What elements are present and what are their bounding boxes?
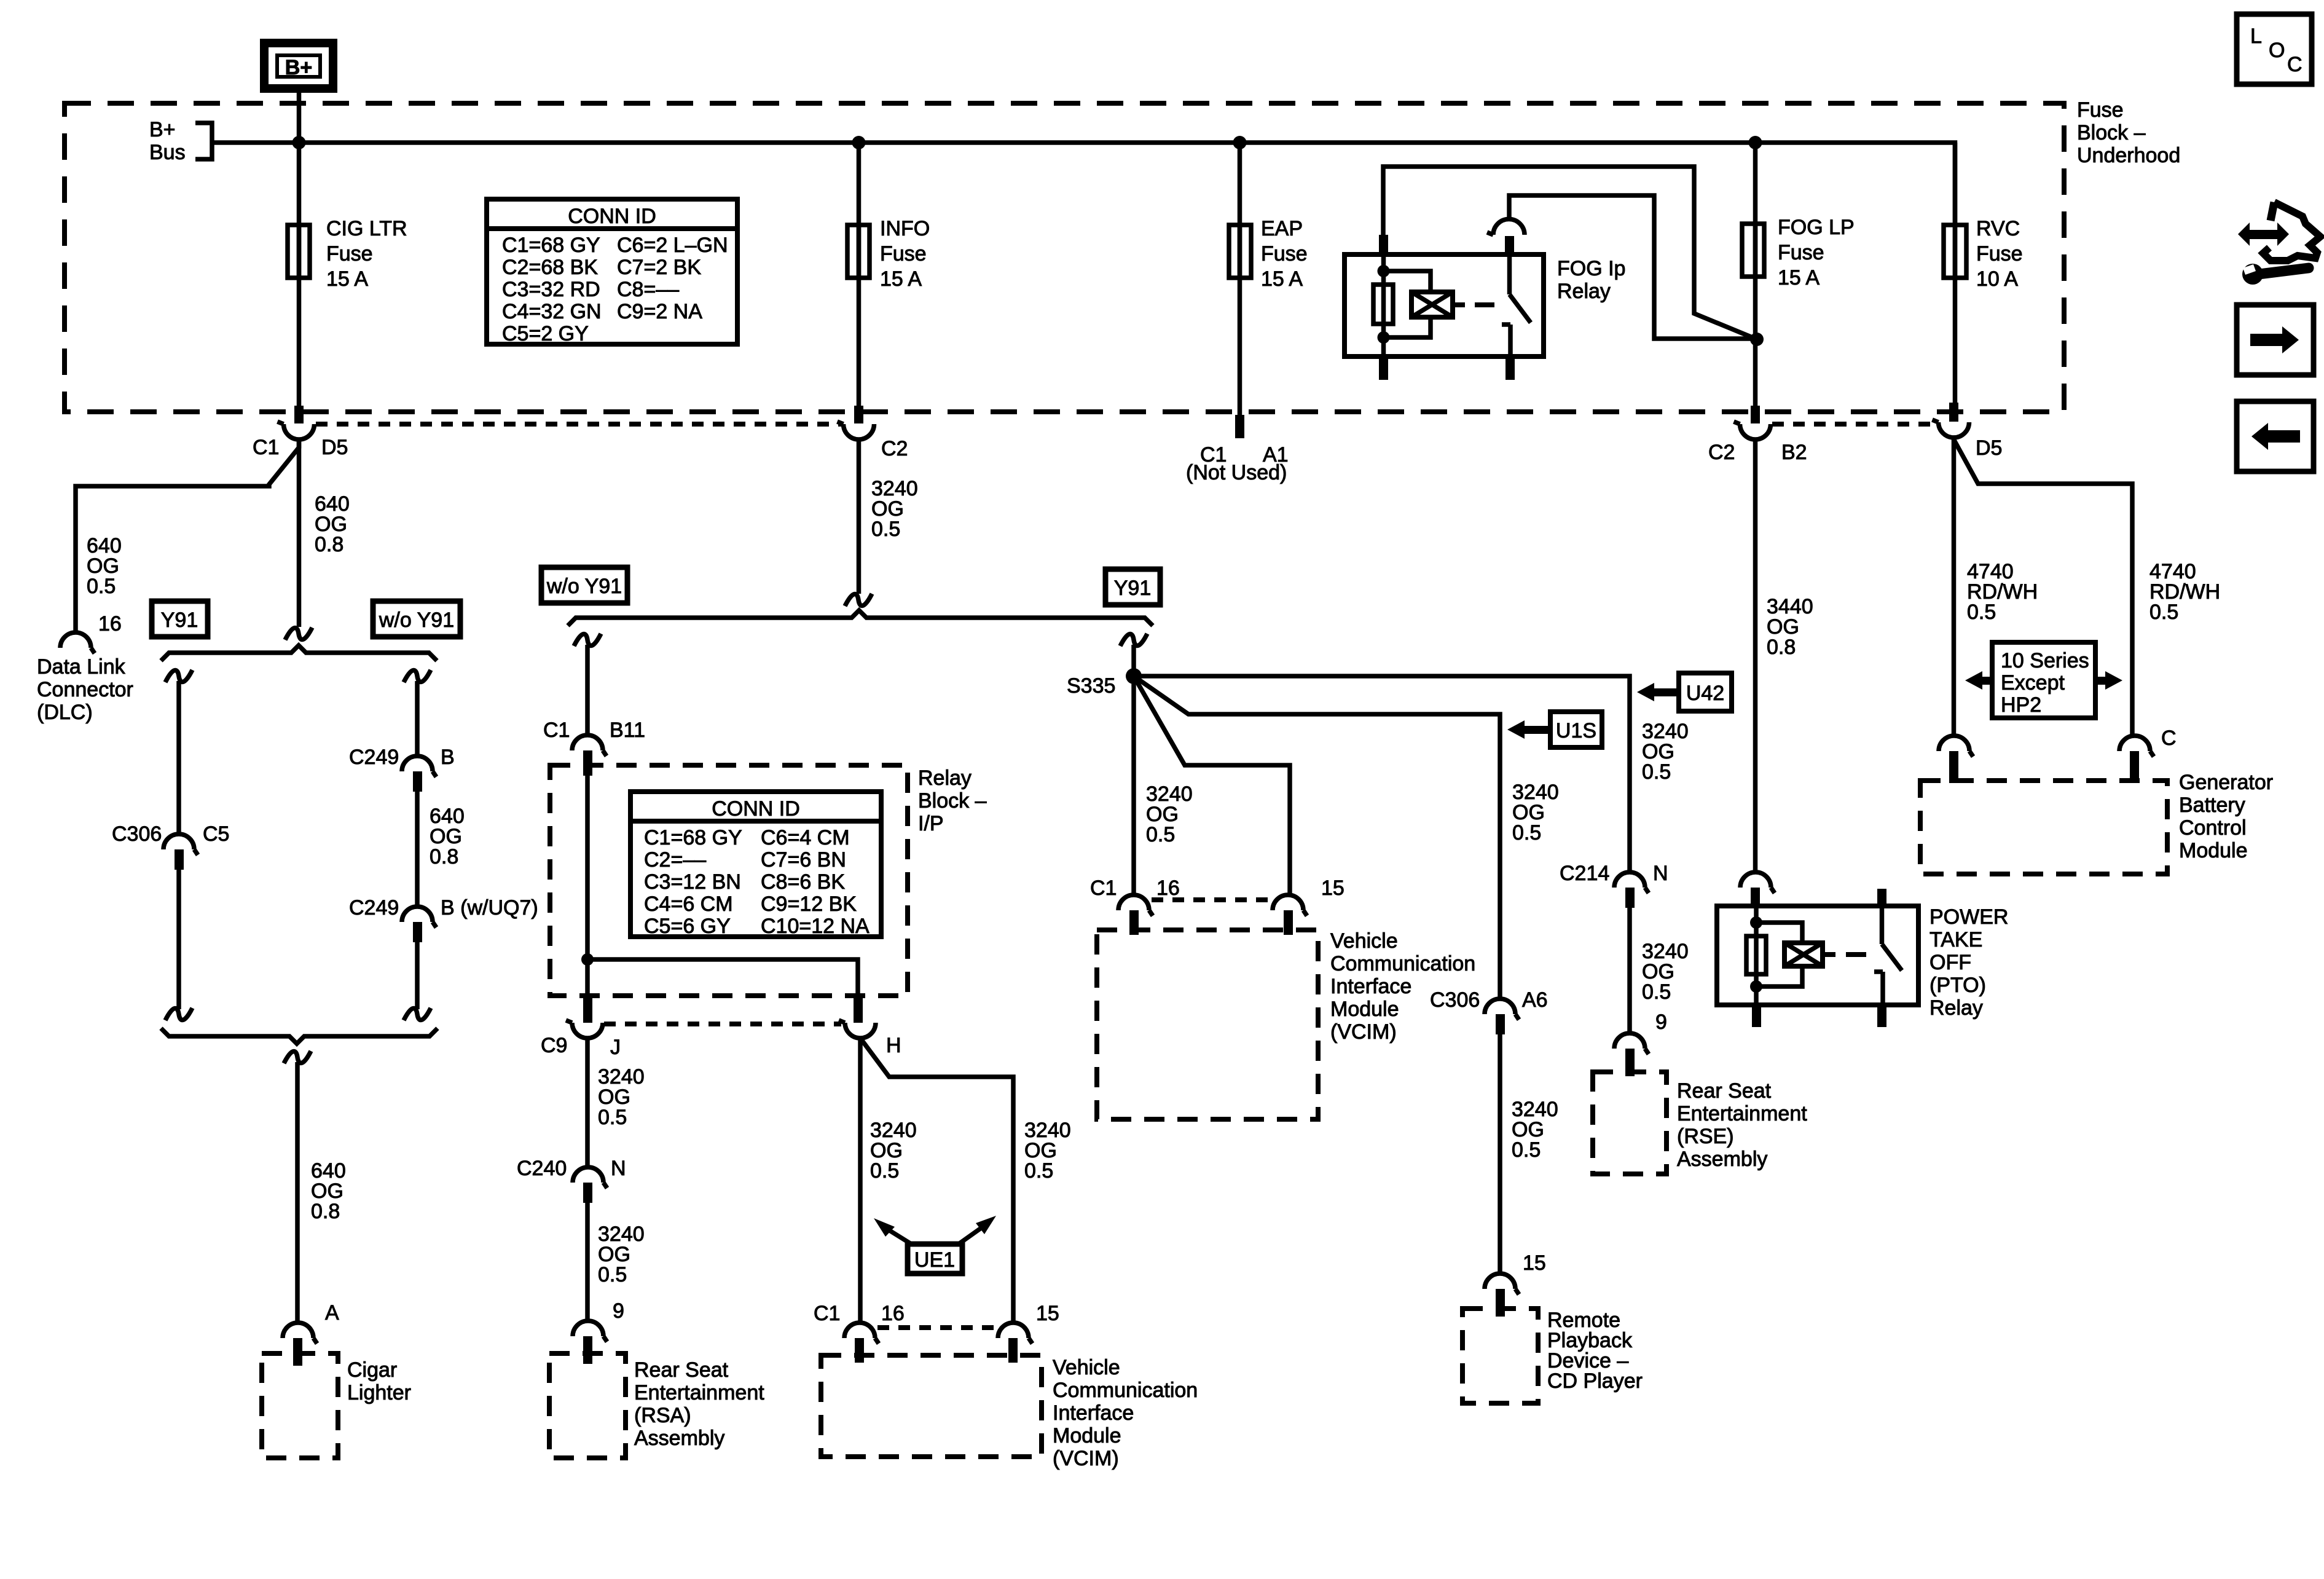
- svg-text:C8=––: C8=––: [617, 278, 679, 301]
- connector C2/B2 (fuse block output, FOG LP): [1751, 406, 1760, 423]
- relay switch blade and contact: [1502, 254, 1531, 356]
- B+ bus wire: [212, 143, 1955, 225]
- node: bus junction at CIG LTR fuse: [292, 136, 306, 149]
- wire: C249/B (w/UQ7) down to lower split: [415, 942, 420, 1009]
- svg-text:Connector: Connector: [37, 678, 133, 701]
- svg-text:0.5: 0.5: [870, 1159, 899, 1183]
- svg-text:0.5: 0.5: [598, 1263, 627, 1286]
- Relay Block I/P dashed box: [550, 765, 908, 996]
- svg-text:0.5: 0.5: [1512, 821, 1541, 845]
- svg-text:Vehicle: Vehicle: [1053, 1356, 1120, 1379]
- svg-text:Y91: Y91: [1114, 577, 1152, 600]
- svg-text:(RSE): (RSE): [1677, 1125, 1734, 1148]
- connector C9/J (relay block output): [583, 996, 592, 1023]
- option box Y91: [152, 601, 208, 637]
- splice symbol left INFO branch: [574, 634, 601, 646]
- wire: C1/D5 down to options split: [297, 438, 302, 627]
- svg-text:C306: C306: [112, 822, 162, 846]
- svg-text:OFF: OFF: [1929, 951, 1971, 974]
- connector 15 (remote playback device): [1485, 1274, 1519, 1294]
- relay coil to switch dashed link: [1453, 302, 1494, 307]
- svg-text:C5: C5: [203, 822, 229, 846]
- svg-text:C214: C214: [1560, 862, 1609, 885]
- svg-text:Control: Control: [2179, 816, 2247, 840]
- connector C2 (fuse block output, INFO): [854, 406, 863, 423]
- svg-text:A6: A6: [1522, 988, 1548, 1012]
- svg-text:0.8: 0.8: [430, 845, 458, 868]
- svg-text:0.5: 0.5: [1642, 980, 1671, 1004]
- relay FOG lp: [1345, 219, 1544, 380]
- svg-text:C5=6 GY: C5=6 GY: [644, 915, 731, 938]
- node: relay block internal junction: [581, 953, 594, 966]
- connector 16 (VCIM upper): [1118, 895, 1153, 916]
- connector A (cigar lighter): [283, 1323, 317, 1344]
- svg-text:C3=12 BN: C3=12 BN: [644, 870, 741, 894]
- splice symbol lower right: [404, 1008, 431, 1020]
- svg-text:Data Link: Data Link: [37, 655, 126, 679]
- options split brace: [161, 645, 437, 661]
- svg-text:C306: C306: [1430, 988, 1480, 1012]
- dotted connector face line J-H: [604, 1022, 841, 1026]
- diagnostic icon (arrows wrench): [2238, 202, 2320, 285]
- svg-text:C1=68 GY: C1=68 GY: [502, 234, 600, 257]
- wire: D5 straight down to generator battery control module: [1952, 437, 1957, 736]
- svg-text:FOG Ip: FOG Ip: [1557, 257, 1625, 280]
- svg-text:C9=2 NA: C9=2 NA: [617, 300, 702, 323]
- svg-text:EAP: EAP: [1261, 217, 1303, 240]
- svg-text:(RSA): (RSA): [634, 1404, 691, 1427]
- wire: S335 to VCIM pin 15: [1134, 676, 1290, 895]
- svg-text:UE1: UE1: [914, 1248, 955, 1272]
- svg-text:I/P: I/P: [918, 812, 944, 835]
- svg-text:C: C: [2287, 53, 2302, 76]
- wire: right branch (w/o Y91) down to C249/B: [415, 681, 420, 756]
- dotted connector face line 16-15: [877, 1325, 997, 1330]
- svg-text:INFO: INFO: [880, 217, 930, 240]
- svg-text:9: 9: [613, 1299, 624, 1323]
- svg-text:16: 16: [98, 612, 122, 636]
- wire: right INFO branch down to S335: [1131, 645, 1136, 676]
- svg-text:POWER: POWER: [1929, 905, 2008, 929]
- svg-text:RVC: RVC: [1976, 217, 2020, 240]
- connector (generator module left): [1939, 736, 1973, 757]
- svg-text:Rear Seat: Rear Seat: [1677, 1079, 1772, 1103]
- svg-text:Assembly: Assembly: [1677, 1148, 1767, 1171]
- svg-text:Module: Module: [1330, 998, 1399, 1021]
- svg-text:B+: B+: [285, 56, 312, 79]
- wire: bus to INFO fuse and connector C2: [857, 143, 862, 407]
- svg-text:Communication: Communication: [1053, 1379, 1198, 1402]
- splice symbol lower left: [165, 1008, 192, 1020]
- svg-text:0.5: 0.5: [598, 1106, 627, 1129]
- svg-text:D5: D5: [321, 436, 348, 459]
- PTO internal nodes: [1750, 916, 1762, 929]
- svg-text:CIG LTR: CIG LTR: [326, 217, 407, 240]
- svg-text:C1: C1: [814, 1302, 840, 1325]
- connector C249/B: [402, 756, 436, 777]
- svg-text:C4=32 GN: C4=32 GN: [502, 300, 602, 323]
- wire: C214/N down to RSE pin 9: [1627, 908, 1632, 1033]
- svg-text:C7=6 BN: C7=6 BN: [761, 848, 846, 872]
- svg-text:Block –: Block –: [2077, 121, 2146, 144]
- lower merge brace: [161, 1028, 438, 1044]
- svg-text:16: 16: [881, 1302, 905, 1325]
- wire: D5 branch right to generator battery control module pin C: [1954, 439, 2133, 736]
- Remote Playback Device CD Player box: [1462, 1309, 1538, 1403]
- svg-text:C3=32 RD: C3=32 RD: [502, 278, 600, 301]
- wire: bus to FOG LP fuse and connector C2/B2: [1753, 143, 1758, 407]
- svg-text:Fuse: Fuse: [1976, 242, 2023, 266]
- node: bus junction at FOG LP fuse: [1749, 136, 1762, 149]
- svg-text:C249: C249: [349, 896, 399, 919]
- svg-text:0.8: 0.8: [1767, 636, 1796, 659]
- fuse EAP 15 A: [1229, 225, 1251, 278]
- connector C1/B11: [572, 735, 607, 756]
- svg-text:Lighter: Lighter: [347, 1381, 411, 1404]
- svg-text:0.5: 0.5: [1024, 1159, 1053, 1183]
- relay switch terminal stubs: [1505, 236, 1514, 256]
- svg-text:10 A: 10 A: [1976, 267, 2018, 291]
- relay coil branch wiring: [1384, 271, 1431, 337]
- svg-text:B (w/UQ7): B (w/UQ7): [441, 896, 538, 919]
- svg-text:0.5: 0.5: [871, 518, 900, 541]
- option arrow U1S: [1507, 712, 1602, 747]
- svg-text:C9: C9: [541, 1034, 567, 1057]
- wire: junction to H output: [587, 959, 858, 996]
- svg-text:O: O: [2269, 39, 2285, 62]
- svg-text:Relay: Relay: [1557, 280, 1611, 303]
- B+ power symbol: [264, 43, 333, 89]
- svg-text:15: 15: [1036, 1302, 1059, 1325]
- svg-text:Generator: Generator: [2179, 771, 2273, 794]
- PTO switch terminal stubs: [1877, 889, 1886, 907]
- svg-text:Interface: Interface: [1053, 1401, 1134, 1425]
- relay coil terminal stubs: [1379, 235, 1388, 256]
- splice symbol right INFO branch: [1120, 634, 1147, 646]
- wire: H splits to VCIM pin 16: [858, 1038, 863, 1323]
- svg-text:C1: C1: [1090, 876, 1117, 900]
- svg-text:15 A: 15 A: [880, 267, 922, 291]
- connector C214/N: [1614, 872, 1649, 893]
- svg-text:C10=12 NA: C10=12 NA: [761, 915, 870, 938]
- svg-text:(DLC): (DLC): [37, 701, 93, 724]
- svg-text:Interface: Interface: [1330, 975, 1411, 998]
- svg-text:Y91: Y91: [161, 608, 198, 632]
- svg-text:C2: C2: [1708, 441, 1735, 464]
- svg-text:Module: Module: [1053, 1424, 1121, 1447]
- node: junction on FOG LP fuse output: [1750, 333, 1764, 346]
- svg-text:Fuse: Fuse: [1778, 241, 1824, 264]
- svg-text:U1S: U1S: [1556, 719, 1596, 742]
- svg-text:Entertainment: Entertainment: [634, 1381, 764, 1404]
- CONN ID table (relay block I/P): [630, 792, 881, 938]
- svg-text:Underhood: Underhood: [2077, 144, 2180, 167]
- svg-text:C5=2 GY: C5=2 GY: [502, 322, 589, 345]
- connector H (relay block output): [854, 996, 863, 1023]
- svg-text:Entertainment: Entertainment: [1677, 1102, 1807, 1125]
- svg-text:9: 9: [1655, 1010, 1667, 1034]
- wire: bus to EAP fuse (not used stub): [1238, 143, 1242, 415]
- PTO coil to switch dashed link: [1823, 952, 1866, 957]
- wire: C2/B2 down to PTO relay: [1753, 438, 1758, 872]
- fuse RVC 10 A: [1944, 225, 1966, 278]
- svg-text:D5: D5: [1976, 436, 2002, 460]
- wire: merge down to cigar lighter connector A: [295, 1062, 300, 1323]
- connector 9 (RSA assembly): [573, 1321, 607, 1342]
- svg-text:15 A: 15 A: [1261, 267, 1303, 291]
- svg-text:w/o Y91: w/o Y91: [379, 608, 454, 632]
- wire: left branch (Y91) down to C306/C5: [176, 681, 181, 834]
- wire: C2 down to INFO options split: [857, 438, 862, 594]
- node: bus junction at INFO fuse: [852, 136, 866, 149]
- svg-text:B+: B+: [149, 118, 176, 141]
- svg-text:C2=68 BK: C2=68 BK: [502, 256, 598, 279]
- svg-text:C240: C240: [517, 1157, 567, 1180]
- svg-text:S335: S335: [1067, 674, 1115, 698]
- CONN ID table (fuse block underhood): [487, 199, 737, 345]
- svg-text:0.5: 0.5: [87, 575, 116, 598]
- relay FOG lp: coil feed wire from coil top to fused node: [1383, 167, 1757, 339]
- svg-text:A: A: [325, 1301, 339, 1325]
- svg-text:0.5: 0.5: [1512, 1138, 1541, 1162]
- svg-text:(VCIM): (VCIM): [1053, 1447, 1119, 1470]
- wire: H splits to VCIM pin 15: [860, 1038, 1013, 1323]
- wire: C240/N down to RSA pin 9: [585, 1203, 590, 1321]
- PTO coil terminal stub: [1752, 1004, 1761, 1027]
- svg-text:FOG LP: FOG LP: [1778, 216, 1855, 239]
- wire: S335 to C306/A6 (U1S circuit): [1134, 676, 1500, 999]
- connector 15 (VCIM upper): [1273, 895, 1307, 916]
- PTO internal resistor: [1746, 936, 1766, 974]
- connector D5 (fuse block output, RVC): [1949, 403, 1958, 422]
- connector C306/C5: [163, 834, 198, 855]
- svg-text:C2=––: C2=––: [644, 848, 706, 872]
- svg-text:C1: C1: [543, 719, 570, 742]
- connector C249/B (w/UQ7): [402, 907, 436, 927]
- svg-text:16: 16: [1156, 876, 1180, 900]
- svg-text:C7=2 BK: C7=2 BK: [617, 256, 701, 279]
- connector C1/D5 (fuse block output): [294, 406, 304, 423]
- wire: S335 to C214/N (U42 circuit): [1134, 676, 1630, 872]
- PTO switch blade and contact: [1874, 906, 1902, 1005]
- wire: C249/B down to C249/B (w/UQ7): [415, 792, 420, 907]
- Cigar Lighter box: [262, 1353, 338, 1458]
- splice symbol at split: [285, 628, 312, 640]
- fuse INFO 15 A: [847, 225, 870, 278]
- connector 9 (RSE assembly): [1614, 1033, 1649, 1054]
- splice symbol left branch: [165, 670, 192, 682]
- splice symbol at INFO split: [845, 594, 872, 606]
- svg-text:B11: B11: [610, 719, 645, 742]
- left arrow reference box: [2237, 401, 2314, 471]
- fuse CIG LTR 15 A: [288, 225, 310, 278]
- option box w/o Y91: [373, 601, 460, 637]
- svg-text:N: N: [611, 1157, 626, 1180]
- connector 15 (VCIM lower): [998, 1323, 1032, 1344]
- wire: C9/J down to C240/N: [585, 1038, 590, 1167]
- PTO coil branch wiring: [1756, 923, 1802, 986]
- PTO coil (X box): [1784, 943, 1823, 966]
- splice symbol below merge: [284, 1051, 311, 1063]
- wire: left INFO branch down to C1/B11: [585, 645, 590, 735]
- svg-text:15: 15: [1523, 1251, 1546, 1275]
- svg-text:(PTO): (PTO): [1929, 974, 1986, 997]
- node: bus junction at EAP fuse: [1233, 136, 1247, 149]
- svg-text:Cigar: Cigar: [347, 1358, 397, 1382]
- svg-text:Block –: Block –: [918, 789, 987, 813]
- svg-text:U42: U42: [1686, 682, 1724, 705]
- relay coil vertical: [1381, 254, 1386, 356]
- svg-text:0.5: 0.5: [1146, 823, 1175, 846]
- right arrow reference box: [2237, 305, 2314, 375]
- svg-text:C2: C2: [881, 437, 908, 460]
- svg-text:Battery: Battery: [2179, 793, 2245, 817]
- svg-text:CD Player: CD Player: [1547, 1369, 1643, 1393]
- option box Y91 (INFO right): [1105, 569, 1160, 605]
- svg-text:Rear Seat: Rear Seat: [634, 1358, 729, 1382]
- svg-text:(VCIM): (VCIM): [1330, 1020, 1397, 1044]
- svg-text:(Not Used): (Not Used): [1186, 461, 1287, 484]
- Vehicle Communication Interface Module (VCIM) lower box: [821, 1355, 1042, 1457]
- svg-text:Except: Except: [2001, 671, 2065, 695]
- wire: C306/C5 down to lower split: [176, 870, 181, 1009]
- Rear Seat Entertainment (RSA) Assembly box: [549, 1353, 626, 1458]
- svg-text:w/o Y91: w/o Y91: [546, 575, 622, 598]
- svg-text:Fuse: Fuse: [326, 242, 373, 266]
- Vehicle Communication Interface Module (VCIM) upper box: [1097, 930, 1318, 1119]
- svg-text:C1=68 GY: C1=68 GY: [644, 826, 742, 849]
- svg-text:L: L: [2250, 25, 2262, 48]
- svg-text:Fuse: Fuse: [1261, 242, 1308, 266]
- svg-text:10 Series: 10 Series: [2001, 649, 2089, 672]
- Generator Battery Control Module box: [1920, 781, 2167, 874]
- wire: bus corner to RVC fuse and connector D5: [1953, 143, 1958, 403]
- fuse FOG LP 15 A: [1742, 224, 1764, 277]
- connector C306/A6: [1485, 999, 1519, 1020]
- relay FOG lp: switch feed wire from switch top connector to fused node: [1509, 195, 1757, 339]
- Rear Seat Entertainment (RSE) Assembly box: [1593, 1072, 1666, 1174]
- svg-text:Vehicle: Vehicle: [1330, 929, 1398, 953]
- connector (PTO relay coil feed): [1740, 872, 1775, 893]
- svg-text:Assembly: Assembly: [634, 1427, 724, 1450]
- dotted connector face line C1-C2: [316, 422, 843, 427]
- svg-text:Relay: Relay: [918, 766, 972, 790]
- EAP not-used terminal stub: [1235, 415, 1244, 438]
- option box UE1 with arrows: [874, 1216, 996, 1274]
- wire: S335 straight down to VCIM pin C1/16: [1131, 676, 1136, 895]
- svg-text:Relay: Relay: [1929, 996, 1983, 1020]
- svg-text:15: 15: [1321, 876, 1345, 900]
- svg-text:CONN ID: CONN ID: [712, 797, 800, 821]
- svg-text:CONN ID: CONN ID: [568, 205, 656, 228]
- connector 16 (Data Link Connector): [60, 632, 95, 653]
- svg-text:15 A: 15 A: [1778, 266, 1820, 289]
- svg-text:Module: Module: [2179, 839, 2248, 862]
- relay internal resistor: [1373, 285, 1393, 324]
- svg-text:Communication: Communication: [1330, 952, 1475, 975]
- wire: C306/A6 down to CD player pin 15: [1498, 1034, 1502, 1274]
- svg-text:Bus: Bus: [149, 141, 186, 164]
- wire: bus to CIG LTR fuse and connector C1/D5: [297, 143, 302, 407]
- svg-text:J: J: [610, 1036, 621, 1059]
- relay POWER TAKE OFF (PTO): [1717, 889, 1918, 1027]
- svg-text:0.8: 0.8: [315, 533, 343, 556]
- svg-text:B2: B2: [1781, 441, 1807, 464]
- wire: C1/D5 to DLC branch: [76, 438, 299, 632]
- svg-text:B: B: [441, 746, 455, 769]
- splice symbol right branch: [404, 670, 431, 682]
- option arrow U42: [1637, 673, 1732, 711]
- svg-text:C8=6 BK: C8=6 BK: [761, 870, 845, 894]
- PTO coil vertical: [1754, 906, 1759, 1005]
- dotted connector face line B2-D5: [1772, 422, 1937, 427]
- option box 10 Series Except HP2 with arrows: [1965, 642, 2122, 718]
- svg-text:C1: C1: [253, 436, 279, 459]
- svg-text:0.5: 0.5: [1967, 600, 1996, 624]
- svg-text:C: C: [2161, 726, 2177, 750]
- connector 16 (VCIM lower): [844, 1323, 879, 1344]
- relay switch connector (half circle): [1487, 219, 1525, 235]
- svg-text:C4=6 CM: C4=6 CM: [644, 892, 733, 916]
- connector C240/N: [573, 1167, 607, 1188]
- svg-text:0.5: 0.5: [2149, 600, 2178, 624]
- svg-text:0.8: 0.8: [311, 1200, 340, 1223]
- svg-text:C6=2 L–GN: C6=2 L–GN: [617, 234, 728, 257]
- LOC reference box: [2237, 14, 2312, 84]
- svg-text:C9=12 BK: C9=12 BK: [761, 892, 857, 916]
- fuse block underhood dashed box: [65, 103, 2064, 412]
- wire B+ to bus: [297, 89, 302, 143]
- relay internal nodes: [1378, 265, 1390, 277]
- relay coil (X box): [1411, 292, 1453, 317]
- svg-text:TAKE: TAKE: [1929, 928, 1982, 951]
- svg-text:Fuse: Fuse: [880, 242, 927, 266]
- svg-text:H: H: [886, 1034, 901, 1057]
- connector C (generator module right): [2119, 736, 2154, 757]
- svg-text:0.5: 0.5: [1642, 760, 1671, 784]
- option box w/o Y91 (INFO left): [541, 567, 627, 603]
- svg-text:Fuse: Fuse: [2077, 98, 2124, 122]
- INFO options split brace: [568, 610, 1153, 626]
- svg-text:15 A: 15 A: [326, 267, 368, 291]
- wire: B11 through relay block to J and H: [585, 776, 590, 996]
- node S335 splice: [1126, 668, 1142, 684]
- svg-text:HP2: HP2: [2001, 693, 2041, 717]
- dotted connector face line 16-15 (VCIM upper): [1152, 897, 1271, 902]
- B+ Bus bracket: [195, 123, 212, 159]
- svg-text:C6=4 CM: C6=4 CM: [761, 826, 850, 849]
- svg-text:C249: C249: [349, 746, 399, 769]
- svg-text:N: N: [1653, 862, 1668, 885]
